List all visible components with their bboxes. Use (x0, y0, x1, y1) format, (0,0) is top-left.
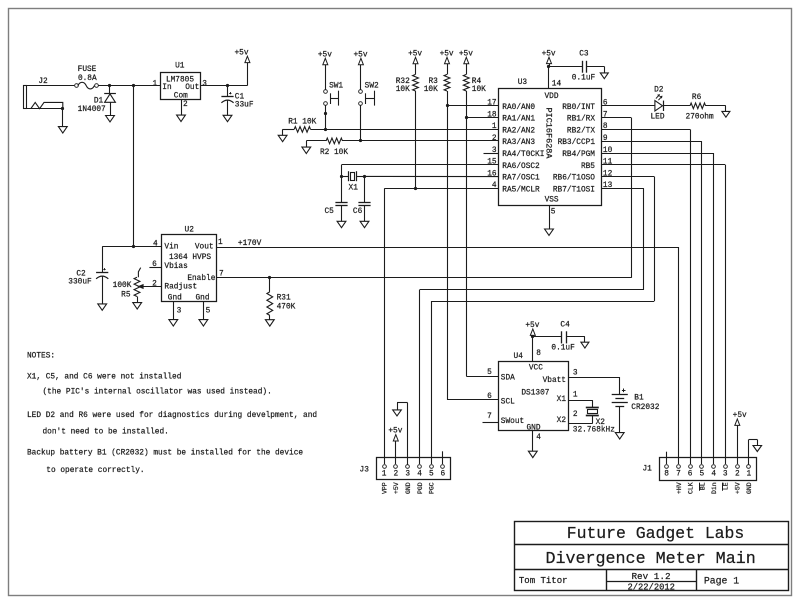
svg-text:D1: D1 (94, 98, 104, 106)
svg-text:17: 17 (487, 100, 497, 108)
svg-text:RA5/MCLR: RA5/MCLR (502, 186, 540, 194)
svg-text:+5v: +5v (234, 49, 248, 57)
svg-text:RA1/AN1: RA1/AN1 (502, 116, 535, 124)
svg-text:8: 8 (664, 471, 669, 479)
svg-text:NOTES:: NOTES: (27, 353, 55, 361)
svg-text:CLK: CLK (688, 482, 695, 494)
svg-text:12: 12 (603, 170, 613, 178)
svg-text:to operate correctly.: to operate correctly. (46, 467, 144, 475)
svg-text:C2: C2 (76, 271, 86, 279)
svg-text:2: 2 (492, 135, 497, 143)
svg-text:5: 5 (487, 369, 492, 377)
svg-text:10K: 10K (424, 86, 438, 94)
svg-text:R6: R6 (692, 94, 702, 102)
svg-text:1: 1 (153, 80, 158, 88)
svg-text:RB2/TX: RB2/TX (567, 127, 595, 135)
svg-text:PIC16F628A: PIC16F628A (543, 108, 553, 160)
svg-text:GND: GND (746, 482, 753, 494)
svg-text:SDA: SDA (501, 375, 515, 383)
svg-text:2: 2 (183, 101, 188, 109)
svg-text:3: 3 (405, 471, 410, 479)
svg-text:VDD: VDD (544, 93, 558, 101)
svg-text:5: 5 (429, 471, 434, 479)
svg-text:2/22/2012: 2/22/2012 (627, 582, 675, 592)
svg-text:6: 6 (688, 471, 693, 479)
svg-text:R5: R5 (121, 291, 131, 299)
svg-text:J1: J1 (642, 466, 652, 474)
svg-text:1N4007: 1N4007 (78, 106, 106, 114)
svg-text:Out: Out (185, 84, 199, 92)
svg-text:0.8A: 0.8A (78, 75, 97, 83)
svg-text:Future Gadget Labs: Future Gadget Labs (567, 524, 745, 543)
svg-text:4: 4 (153, 241, 158, 249)
svg-text:RA3/AN3: RA3/AN3 (502, 139, 535, 147)
svg-text:C6: C6 (353, 208, 363, 216)
svg-text:RB3/CCP1: RB3/CCP1 (558, 139, 596, 147)
svg-text:470K: 470K (277, 304, 296, 312)
svg-text:FUSE: FUSE (78, 66, 97, 74)
svg-text:Gnd: Gnd (195, 295, 209, 303)
svg-text:SW2: SW2 (365, 82, 379, 90)
svg-text:CR2032: CR2032 (631, 404, 659, 412)
svg-text:J3: J3 (360, 467, 370, 475)
svg-text:6: 6 (440, 471, 445, 479)
svg-text:RB5: RB5 (581, 163, 595, 171)
svg-text:7: 7 (676, 471, 681, 479)
svg-text:15: 15 (487, 159, 497, 167)
svg-text:3: 3 (202, 81, 207, 89)
svg-text:11: 11 (603, 159, 613, 167)
svg-text:+5v: +5v (353, 51, 367, 59)
svg-text:Tom Titor: Tom Titor (519, 576, 568, 586)
svg-text:GND: GND (405, 482, 412, 494)
svg-text:10K: 10K (472, 86, 486, 94)
svg-text:3: 3 (177, 308, 182, 316)
svg-text:DS1307: DS1307 (521, 389, 549, 397)
svg-text:X1: X1 (349, 185, 359, 193)
svg-text:1: 1 (746, 471, 751, 479)
svg-text:R31: R31 (277, 295, 291, 303)
svg-text:+5v: +5v (318, 51, 332, 59)
svg-text:Din: Din (711, 482, 718, 494)
svg-text:U4: U4 (514, 353, 524, 361)
svg-text:don't need to be installed.: don't need to be installed. (43, 429, 169, 437)
svg-text:0.1uF: 0.1uF (572, 75, 596, 83)
svg-text:8: 8 (536, 350, 541, 358)
svg-text:+5v: +5v (408, 50, 422, 58)
svg-text:2: 2 (735, 471, 740, 479)
svg-text:4: 4 (711, 471, 716, 479)
svg-text:6: 6 (603, 100, 608, 108)
svg-text:J2: J2 (38, 78, 48, 86)
svg-text:GND: GND (526, 425, 540, 433)
svg-text:SWout: SWout (501, 418, 524, 426)
svg-text:3: 3 (723, 471, 728, 479)
svg-text:BL: BL (699, 482, 706, 490)
svg-text:3: 3 (573, 369, 578, 377)
svg-text:Radjust: Radjust (164, 284, 197, 292)
svg-text:5: 5 (551, 209, 556, 217)
svg-text:RA2/AN2: RA2/AN2 (502, 127, 535, 135)
svg-text:Vout: Vout (195, 243, 214, 251)
svg-text:C1: C1 (235, 94, 245, 102)
svg-text:14: 14 (552, 81, 562, 89)
svg-text:Backup battery B1 (CR2032) mus: Backup battery B1 (CR2032) must be insta… (27, 450, 303, 458)
svg-text:1: 1 (573, 392, 578, 400)
svg-text:C5: C5 (324, 208, 334, 216)
svg-text:+5V: +5V (735, 482, 742, 494)
svg-text:LE: LE (723, 482, 730, 490)
svg-text:7: 7 (487, 413, 492, 421)
svg-text:32.768kHz: 32.768kHz (573, 426, 615, 434)
svg-text:R32: R32 (396, 78, 410, 86)
svg-text:5: 5 (700, 471, 705, 479)
svg-text:Page 1: Page 1 (704, 576, 739, 587)
svg-text:PGD: PGD (417, 482, 424, 494)
svg-text:+5v: +5v (525, 322, 539, 330)
svg-text:+5v: +5v (542, 50, 556, 58)
svg-text:SCL: SCL (501, 399, 515, 407)
svg-text:In: In (162, 84, 171, 92)
svg-text:RB1/RX: RB1/RX (567, 116, 595, 124)
svg-text:RA6/OSC2: RA6/OSC2 (502, 163, 540, 171)
svg-text:+5V: +5V (393, 482, 400, 494)
svg-text:+HV: +HV (676, 482, 683, 494)
svg-text:Vin: Vin (164, 243, 178, 251)
svg-text:1: 1 (492, 123, 497, 131)
svg-text:RA4/T0CKI: RA4/T0CKI (502, 151, 544, 159)
svg-text:2: 2 (393, 471, 398, 479)
svg-text:1364 HVPS: 1364 HVPS (169, 254, 211, 262)
svg-text:U1: U1 (175, 63, 185, 71)
svg-text:4: 4 (536, 434, 541, 442)
svg-text:Gnd: Gnd (168, 295, 182, 303)
svg-text:5: 5 (206, 308, 211, 316)
svg-text:SW1: SW1 (329, 82, 343, 90)
svg-text:LED: LED (650, 114, 664, 122)
svg-text:+5v: +5v (733, 412, 747, 420)
svg-text:X2: X2 (557, 417, 567, 425)
svg-text:1: 1 (382, 471, 387, 479)
svg-text:C3: C3 (579, 51, 589, 59)
svg-text:R4: R4 (472, 78, 482, 86)
svg-text:+5v: +5v (440, 50, 454, 58)
svg-text:U2: U2 (185, 227, 195, 235)
svg-text:Divergence Meter Main: Divergence Meter Main (545, 550, 755, 569)
svg-text:0.1uF: 0.1uF (551, 345, 575, 353)
svg-text:U3: U3 (518, 79, 528, 87)
svg-text:270ohm: 270ohm (686, 114, 714, 122)
svg-text:1: 1 (218, 239, 223, 247)
svg-text:Rev 1.2: Rev 1.2 (631, 571, 670, 582)
svg-text:7: 7 (603, 111, 608, 119)
svg-text:R3: R3 (428, 78, 438, 86)
svg-text:LED D2 and R6 were used for di: LED D2 and R6 were used for diagnostics … (27, 412, 317, 420)
svg-text:R2 10K: R2 10K (320, 149, 348, 157)
svg-text:Vbatt: Vbatt (543, 377, 566, 385)
svg-text:16: 16 (487, 170, 497, 178)
svg-text:RA7/OSC1: RA7/OSC1 (502, 175, 540, 183)
svg-text:33uF: 33uF (235, 102, 254, 110)
svg-text:100K: 100K (113, 282, 132, 290)
svg-text:+170V: +170V (238, 240, 262, 248)
svg-text:2: 2 (152, 280, 157, 288)
svg-text:D2: D2 (654, 87, 664, 95)
svg-text:R1 10K: R1 10K (288, 119, 316, 127)
svg-text:RB0/INT: RB0/INT (562, 104, 595, 112)
svg-text:2: 2 (573, 411, 578, 419)
svg-text:Com: Com (174, 93, 188, 101)
svg-text:(the PIC's internal oscillator: (the PIC's internal oscillator was used … (43, 389, 272, 397)
svg-text:Vbias: Vbias (164, 263, 188, 271)
svg-text:18: 18 (487, 111, 497, 119)
svg-text:VSS: VSS (545, 197, 559, 205)
svg-text:X1: X1 (557, 396, 567, 404)
svg-text:+5v: +5v (459, 50, 473, 58)
svg-text:+5v: +5v (388, 428, 402, 436)
svg-text:RB7/T1OSI: RB7/T1OSI (553, 186, 595, 194)
svg-text:VPP: VPP (382, 482, 389, 494)
svg-text:PGC: PGC (429, 482, 436, 494)
svg-text:Enable: Enable (187, 275, 215, 283)
svg-text:RA0/AN0: RA0/AN0 (502, 104, 535, 112)
svg-text:6: 6 (487, 393, 492, 401)
svg-text:330uF: 330uF (68, 279, 92, 287)
svg-text:10K: 10K (396, 86, 410, 94)
svg-text:C4: C4 (560, 322, 570, 330)
svg-text:VCC: VCC (529, 365, 543, 373)
svg-text:4: 4 (417, 471, 422, 479)
svg-text:X1, C5, and C6 were not instal: X1, C5, and C6 were not installed (27, 374, 181, 382)
svg-text:B1: B1 (634, 394, 644, 402)
svg-text:RB4/PGM: RB4/PGM (562, 151, 595, 159)
svg-text:RB6/T1OSO: RB6/T1OSO (553, 175, 595, 183)
